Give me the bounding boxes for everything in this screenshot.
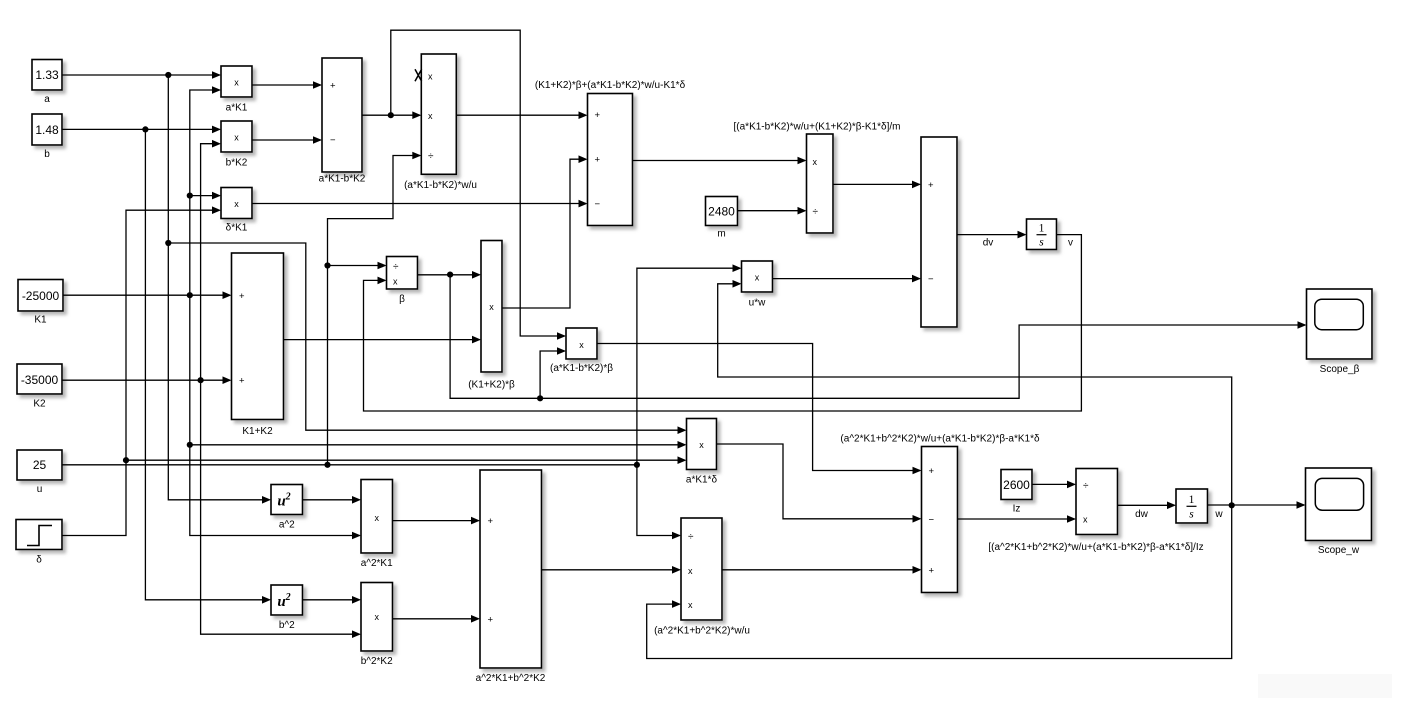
wire (K1+K2)*beta out up to big sum plus2 (502, 155, 588, 308)
junction a*K1-b*K2 branch (388, 112, 394, 118)
svg-text:u: u (37, 484, 43, 495)
wire a*K1*delta out to bottom sum minus (717, 444, 922, 523)
divide [(a*K1-b*K2)*w/u+(K1+K2)*beta-K1*delta]/m (734, 122, 901, 234)
sum a^2*K1+b^2*K2 (476, 470, 546, 684)
divide beta = v/u (387, 257, 418, 306)
constant K2 = -35000 (17, 364, 62, 410)
scope Scope_w (1306, 468, 1372, 556)
wire big sum out to divide-m x input (633, 157, 807, 165)
wire K1 branch to a*K1*delta in2 (190, 441, 687, 449)
wire K1 to K1+K2 in1 (63, 291, 232, 299)
junction beta to (a*K1-b*K2)*beta (537, 395, 543, 401)
wire u*w out to dv sum minus (773, 275, 922, 283)
svg-text:+: + (488, 516, 494, 527)
svg-text:a*K1-b*K2: a*K1-b*K2 (319, 174, 366, 185)
wire a^2 out to a^2*K1 in1 (303, 496, 362, 504)
signal label dw (1135, 509, 1149, 520)
watermark (1258, 674, 1392, 698)
svg-text:1.33: 1.33 (35, 68, 59, 82)
svg-text:−: − (929, 514, 935, 525)
wire a*K1-b*K2 out to (a*K1-b*K2)*w/u x input (362, 111, 421, 119)
product a^2*K1 (361, 480, 393, 570)
wire b to b*K2 in1 (62, 126, 221, 134)
wire integrator w out to Scope_w (1208, 501, 1306, 509)
svg-text:s: s (1039, 237, 1044, 249)
wire beta branch up to (a*K1-b*K2)*beta in2 (540, 347, 566, 398)
svg-text:a^2*K1: a^2*K1 (361, 558, 393, 569)
wire a*K1-b*K2 loop over top to (a*K1-b*K2)*beta in1 (391, 30, 566, 340)
wire bottom sum out to divide-Iz x input (958, 515, 1077, 523)
junction w (1229, 502, 1235, 508)
svg-text:x: x (393, 276, 398, 286)
svg-text:[(a^2*K1+b^2*K2)*w/u+(a*K1-b*K: [(a^2*K1+b^2*K2)*w/u+(a*K1-b*K2)*β-a*K1*… (988, 542, 1203, 553)
junction K1 to a*K1*delta (187, 442, 193, 448)
constant Iz = 2600 (1001, 470, 1032, 515)
svg-text:x: x (374, 612, 379, 622)
math function a^2 (u squared) (271, 485, 303, 531)
wire beta down and right to Scope_beta (450, 275, 1306, 399)
junction delta branch (123, 457, 129, 463)
svg-text:÷: ÷ (393, 261, 399, 272)
svg-text:25: 25 (33, 458, 47, 472)
product-divide (a*K1-b*K2)*w/u (404, 54, 477, 191)
svg-text:a*K1*δ: a*K1*δ (686, 475, 718, 486)
svg-text:x: x (579, 340, 584, 350)
svg-text:x: x (234, 199, 239, 209)
svg-text:x: x (1083, 515, 1088, 525)
svg-text:dv: dv (983, 238, 994, 249)
wire beta out to (K1+K2)*beta in1 (418, 271, 482, 279)
svg-text:(a^2*K1+b^2*K2)*w/u+(a*K1-b*K2: (a^2*K1+b^2*K2)*w/u+(a*K1-b*K2)*β-a*K1*δ (840, 434, 1040, 445)
wire (a^2*K1+b^2*K2)*w/u out to bottom sum plus2 (722, 566, 922, 574)
svg-text:+: + (488, 614, 494, 625)
wire u column to u*w in1 and (a^2*K1+b^2*K2)*w/u divide input (637, 264, 742, 539)
svg-text:K2: K2 (33, 399, 46, 410)
wire a*K1 out to sum plus (252, 81, 322, 89)
signal label dv (983, 238, 994, 249)
svg-text:δ*K1: δ*K1 (226, 223, 248, 234)
svg-text:+: + (595, 155, 601, 166)
svg-text:Scope_w: Scope_w (1318, 545, 1360, 556)
svg-text:+: + (330, 81, 336, 92)
junction a branch to a*K1*delta (165, 240, 171, 246)
constant m = 2480 (706, 197, 738, 240)
svg-text:a: a (44, 94, 50, 105)
svg-text:a^2*K1+b^2*K2: a^2*K1+b^2*K2 (476, 673, 546, 684)
svg-text:[(a*K1-b*K2)*w/u+(K1+K2)*β-K1*: [(a*K1-b*K2)*w/u+(K1+K2)*β-K1*δ]/m (734, 122, 901, 133)
svg-text:1.48: 1.48 (35, 123, 59, 137)
wire b vertical bus down to b^2 (145, 129, 271, 603)
wire divide-m out to dv sum plus (833, 181, 921, 189)
svg-text:2600: 2600 (1003, 478, 1030, 492)
product-divide (a^2*K1+b^2*K2)*w/u (654, 518, 750, 637)
svg-text:÷: ÷ (813, 207, 819, 218)
wire a branch to a*K1*delta in1 (168, 243, 686, 434)
product a*K1*delta (686, 419, 718, 486)
wire K1+K2 out to (K1+K2)*beta in2 (284, 336, 482, 344)
wire b^2 out to b^2*K2 in1 (303, 596, 362, 604)
svg-text:Iz: Iz (1013, 504, 1021, 515)
svg-text:w: w (1214, 509, 1223, 520)
svg-text:+: + (239, 291, 245, 302)
svg-text:-35000: -35000 (21, 373, 59, 387)
junction u at u*w column (634, 462, 640, 468)
svg-text:dw: dw (1135, 509, 1149, 520)
svg-text:x: x (234, 78, 239, 88)
junction u rise (324, 462, 330, 468)
junction K1 bus (187, 292, 193, 298)
svg-text:x: x (755, 273, 760, 283)
svg-text:b*K2: b*K2 (226, 158, 248, 169)
integrator 1/s (v) (1027, 219, 1057, 250)
svg-text:÷: ÷ (688, 531, 694, 542)
step source delta (16, 520, 62, 566)
scope Scope_beta (1307, 289, 1373, 375)
sum (K1+K2)*beta+(a*K1-b*K2)*w/u-K1*delta (535, 80, 686, 226)
svg-text:K1+K2: K1+K2 (242, 426, 273, 437)
svg-text:Scope_β: Scope_β (1320, 364, 1360, 375)
wire divide-Iz out to integrator w (1118, 502, 1177, 510)
product b*K2 (221, 121, 252, 169)
svg-text:x: x (374, 513, 379, 523)
wire u up to (a*K1-b*K2)*w/u divide input (328, 152, 422, 465)
wire a to a*K1 in1 (62, 71, 221, 79)
svg-text:(a^2*K1+b^2*K2)*w/u: (a^2*K1+b^2*K2)*w/u (654, 626, 750, 637)
wire K1 branch to delta*K1 in1 (190, 192, 221, 200)
divide [(a^2*K1+b^2*K2)*w/u+(a*K1-b*K2)*beta-a*K1*delta]/Iz (988, 469, 1203, 554)
svg-text:x: x (428, 111, 433, 121)
product (K1+K2)*beta (468, 241, 515, 391)
svg-text:1: 1 (1039, 223, 1045, 235)
signal label w (1214, 509, 1223, 520)
svg-text:s: s (1189, 509, 1194, 521)
constant u = 25 (17, 450, 62, 495)
math function b^2 (u squared) (271, 585, 303, 631)
svg-text:δ: δ (36, 555, 42, 566)
svg-text:(K1+K2)*β+(a*K1-b*K2)*w/u-K1*δ: (K1+K2)*β+(a*K1-b*K2)*w/u-K1*δ (535, 80, 686, 91)
svg-text:+: + (929, 566, 935, 577)
svg-text:+: + (929, 466, 935, 477)
product (a*K1-b*K2)*beta (550, 328, 613, 374)
sum dv (921, 137, 957, 327)
svg-text:x: x (428, 72, 433, 82)
svg-text:x: x (688, 600, 693, 610)
svg-text:-25000: -25000 (22, 289, 60, 303)
junction b branch (142, 126, 148, 132)
wire delta from step up to delta*K1 in2 (62, 206, 221, 535)
svg-text:b: b (44, 149, 50, 160)
wire v feedback from integrator to beta x input (364, 235, 1082, 411)
svg-text:+: + (239, 376, 245, 387)
constant b = 1.48 (32, 114, 62, 160)
product b^2*K2 (361, 583, 393, 668)
svg-text:x: x (234, 133, 239, 143)
wire Iz to divide-Iz divide input (1032, 481, 1076, 489)
wire u branch to beta divide input (328, 262, 387, 270)
junction a branch (165, 72, 171, 78)
svg-text:m: m (717, 229, 725, 240)
sum K1+K2 (232, 253, 284, 437)
wire w feedback bottom loop to (a^2*K1+b^2*K2)*w/u in3 (647, 505, 1232, 658)
wire w feedback to u*w in2 (718, 280, 1232, 505)
svg-text:1: 1 (1189, 494, 1195, 506)
junction u to beta divide (324, 262, 330, 268)
wire u main horizontal (62, 464, 637, 466)
svg-text:+: + (595, 110, 601, 121)
junction K2 bus (198, 377, 204, 383)
svg-text:+: + (928, 180, 934, 191)
svg-text:−: − (928, 274, 934, 285)
svg-text:÷: ÷ (428, 151, 434, 162)
wire a^2*K1+b^2*K2 out to (a^2*K1+b^2*K2)*w/u x input (542, 566, 682, 574)
wire K1 vertical bus from a*K1 in2 down to a^2*K1 in2 (190, 86, 361, 539)
svg-text:x: x (489, 302, 494, 312)
svg-text:u*w: u*w (749, 298, 766, 309)
svg-text:a^2: a^2 (279, 520, 295, 531)
wire (a*K1-b*K2)*beta out to bottom sum plus1 (597, 344, 922, 475)
svg-text:a*K1: a*K1 (226, 103, 248, 114)
wire K2 to K1+K2 in2 (62, 376, 232, 384)
integrator 1/s (w) (1176, 489, 1208, 523)
svg-text:b^2*K2: b^2*K2 (361, 656, 393, 667)
svg-text:x: x (813, 157, 818, 167)
svg-text:(a*K1-b*K2)*β: (a*K1-b*K2)*β (550, 363, 613, 374)
wire a vertical bus down to a^2 (168, 75, 271, 504)
svg-text:(K1+K2)*β: (K1+K2)*β (468, 380, 515, 391)
sum a*K1-b*K2 (319, 58, 366, 185)
constant K1 = -25000 (18, 280, 63, 326)
svg-text:(a*K1-b*K2)*w/u: (a*K1-b*K2)*w/u (404, 180, 477, 191)
svg-text:β: β (399, 294, 405, 305)
wire delta branch to a*K1*delta in3 (126, 456, 687, 464)
wire b*K2 out to sum minus (252, 136, 322, 144)
product a*K1 (221, 66, 252, 114)
wire b^2*K2 out to sum plus2 (393, 615, 481, 623)
svg-text:2480: 2480 (708, 205, 735, 219)
product u*w (742, 261, 773, 309)
svg-text:−: − (595, 199, 601, 210)
wire a^2*K1 out to sum plus1 (393, 517, 481, 525)
svg-text:v: v (1068, 238, 1073, 249)
wire (a*K1-b*K2)*w/u out to big sum plus1 (456, 111, 587, 119)
constant a = 1.33 (32, 60, 62, 106)
svg-text:b^2: b^2 (279, 620, 295, 631)
svg-text:÷: ÷ (1083, 480, 1089, 491)
wire delta*K1 out to big sum minus (252, 200, 588, 208)
svg-text:x: x (699, 440, 704, 450)
junction K1 to delta*K1 (187, 193, 193, 199)
wire K2 vertical bus from b*K2 in2 down to b^2*K2 in2 (201, 140, 361, 638)
signal label v (1068, 238, 1073, 249)
sum (a^2*K1+b^2*K2)*w/u+(a*K1-b*K2)*beta-a*K1*delta (840, 434, 1040, 593)
product delta*K1 (221, 188, 252, 234)
svg-text:−: − (330, 135, 336, 146)
wire dv sum out to integrator v (957, 231, 1027, 239)
junction beta branch (447, 272, 453, 278)
svg-text:K1: K1 (34, 315, 47, 326)
svg-text:x: x (688, 566, 693, 576)
wire m to divide-m divide input (738, 207, 807, 215)
unconnected port cross on (a*K1-b*K2)*w/u input 1 (415, 69, 422, 81)
